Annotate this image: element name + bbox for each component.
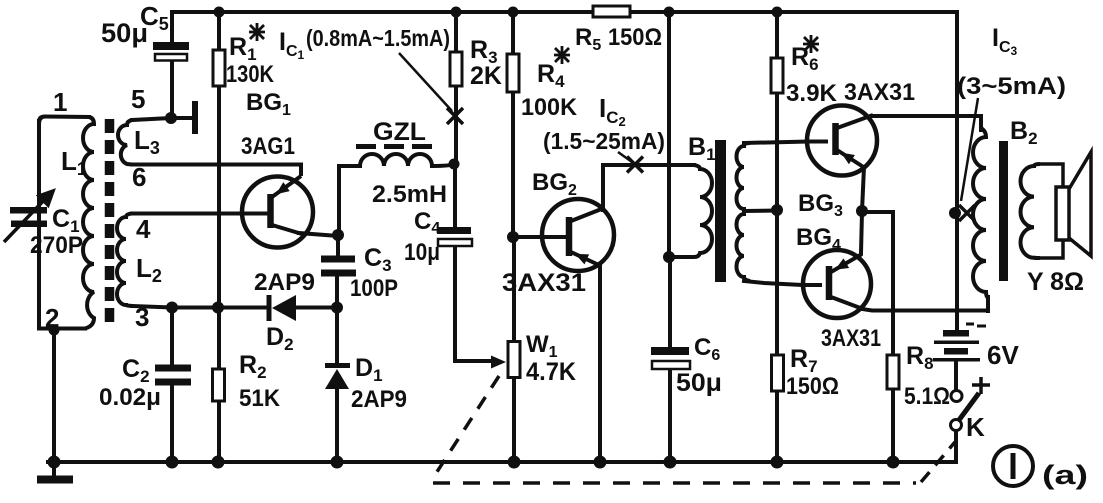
wire R1 branch vertical [217,12,221,369]
wire C5 top stub [170,12,174,43]
gang link dashed line from W1 wiper [433,376,499,478]
wire switch bottom to rail [954,430,958,462]
measuring point X marks [447,108,975,221]
wire terminal 6 to BG1 emitter corner [132,165,301,175]
node 3 junction at C2 [166,302,178,314]
X mark IC3 point [959,205,975,221]
wire top supply rail left of R5 [172,10,593,14]
wire C6 to rail [668,371,672,462]
gang link dashed line to switch K [921,442,955,482]
potentiometer W1 4.7K body [508,342,520,378]
resistor R2 51K body [213,369,225,401]
svg-text:2AP9: 2AP9 [351,386,407,413]
plus sign near switch [972,377,990,394]
wire B1 secondary bottom to BG4 base [744,281,803,285]
junction ground rail / W1 [508,456,521,469]
wire B1 center tap lead [744,209,777,214]
svg-text:(0.8mA~1.5mA): (0.8mA~1.5mA) [306,25,450,51]
svg-text:GZL: GZL [373,118,426,146]
transformer B1 [669,140,750,282]
svg-text:10μ: 10μ [404,239,440,266]
capacitor C4 10u (electrolytic) [437,227,471,234]
wire W1 string: base node down through pot to rail [512,237,516,462]
svg-text:2: 2 [45,303,59,333]
wire C4 top stub [453,164,457,228]
annotation pointer lines [399,53,978,201]
switch K [951,391,980,431]
svg-text:(a): (a) [1042,460,1088,490]
coil L2 (terminals 4,3) [117,214,132,307]
coil L3 (terminals 5,6) [118,120,132,165]
coil L1 [83,117,94,329]
junction R6 top at supply rail [772,7,783,18]
GZL dashed marker line [356,144,434,149]
svg-text:3AG1: 3AG1 [241,133,295,160]
wire BG3 collector to B2 primary top [872,116,981,130]
wire terminal 4 to BG1 base [132,212,266,216]
svg-text:51K: 51K [239,385,281,412]
svg-text:2AP9: 2AP9 [254,269,315,296]
X mark IC2 point [627,157,643,173]
pointer line from IC1 note to measuring point [399,53,452,111]
svg-text:4.7K: 4.7K [526,358,576,386]
wire C2 bottom stub [170,386,174,462]
wire tank left vertical [37,121,41,326]
svg-text:3: 3 [135,302,149,332]
select-on-test mark for R1 [249,23,265,41]
gang link dashed line along bottom [433,481,916,485]
wire bottom ground rail [48,460,956,464]
junction R1 top at supply rail [214,7,225,18]
svg-text:3AX31: 3AX31 [821,325,881,352]
wire C2 top stub [170,308,174,366]
svg-text:5: 5 [131,84,145,114]
node BG2 base / R4 / W1 junction [507,231,519,243]
svg-text:3AX31: 3AX31 [844,79,915,106]
svg-text:5.1Ω: 5.1Ω [904,383,950,410]
wire common emitter node right and down to R8 [862,212,893,355]
wire collector node to C3 [336,235,340,256]
wire terminal 3 row to D2 [132,306,266,308]
junction R3 top at supply rail [451,7,462,18]
svg-text:(1.5~25mA): (1.5~25mA) [543,128,665,154]
wire B1 secondary top to BG3 base [744,142,807,144]
svg-text:6: 6 [132,162,146,192]
svg-text:3.9K: 3.9K [786,80,838,107]
svg-text:50μ: 50μ [676,369,722,397]
wire tank bottom [39,327,85,331]
capacitor C2 0.02u [155,365,191,372]
svg-text:K: K [966,412,985,442]
capacitor C3 100P [321,256,355,263]
svg-text:3AX31: 3AX31 [502,269,586,297]
node GZL / R3 / C4 junction [449,159,460,170]
wire BG4 collector right to B2 primary bottom [862,297,988,311]
wire BG3 emitter down to common node [862,167,864,211]
node 5 terminal bar [192,104,198,131]
svg-text:50μ: 50μ [101,18,148,48]
potentiometer W1 wiper arrow [491,356,506,369]
junction ground rail / R8 [887,456,900,469]
ground symbol [37,462,73,480]
svg-text:2.5mH: 2.5mH [372,181,447,208]
svg-text:6V: 6V [987,340,1019,370]
wire right vertical from top rail to battery [955,12,959,332]
resistor R4 100K body [507,54,519,92]
wire center tap to R7 to rail [775,210,779,462]
wire node 5 horizontal with terminal stub [132,118,195,120]
battery minus marks [966,323,974,326]
wire tank top [39,117,89,123]
node B1 primary bottom / C6 junction [663,251,675,263]
junction ground rail / C6 [664,456,677,469]
wire BG2 base [513,235,565,239]
svg-text:2K: 2K [470,62,502,90]
transformer B2 [973,128,1091,298]
svg-text:Y 8Ω: Y 8Ω [1027,268,1084,296]
transistor BG4 3AX31 [803,250,871,318]
junction B1 feed at supply rail [664,7,675,18]
wire C5 bottom to node 5 [170,60,174,118]
wire D2 to C3 junction [296,306,337,310]
node 3 junction at R1/R2 divider [212,302,224,314]
wire BG1 collector to node [299,233,338,236]
select-on-test mark for R4 [554,46,570,64]
node BG1 collector / GZL / C3 junction [332,229,344,241]
svg-text:100K: 100K [521,94,578,121]
wire GZL left leg down to BG1 collector node [339,166,360,235]
junction R4 top at supply rail [508,7,519,18]
wire node 2 to rail [52,330,56,462]
wire battery bottom to switch [954,360,958,390]
resistor R8 5.1ohm body [887,355,899,389]
wire B1 feed vertical from top rail [667,12,671,257]
capacitor C5 50u (electrolytic) [153,42,189,50]
wire BG4 emitter up to common node [861,212,862,253]
svg-text:0.02μ: 0.02μ [99,384,161,411]
wire R4 branch vertical [511,12,515,237]
inductor GZL 2.5mH coil [360,154,432,166]
pointer line from IC2 note to measuring point [618,152,632,162]
svg-text:150Ω: 150Ω [786,373,839,400]
mechanical link dashed lines (W1 to K) [433,376,955,483]
wire B1 bottom node to C6 [668,257,672,347]
junction ground rail / D1 [331,456,344,469]
resistor R7 150ohm body [772,355,784,391]
transistor BG3 3AX31 [807,106,877,176]
junction ground rail / R2 [212,456,225,469]
diode D2 2AP9 (horizontal, cathode left) [267,295,272,321]
node 2 junction at tank bottom [49,325,60,336]
wire R3 branch: rail to body, body to GZL node, X crossing point [454,12,458,164]
node BG3-BG4 common emitter / R8 junction [856,205,868,217]
node C3 / D2 / D1 junction [331,302,343,314]
pointer line from IC3 note to measuring point [961,98,978,201]
transistor BG1 3AG1 [242,176,313,248]
wire C3 to D2/D1 node [335,277,339,363]
resistor R3 2K body [450,52,462,86]
junction ground rail / BG2 emitter [594,456,607,469]
select-on-test mark for R6 [803,35,819,53]
battery 6V [933,323,986,362]
junction ground rail / C2 [166,456,179,469]
wire BG2 emitter to rail [598,264,602,462]
resistor R6 3.9K body [771,58,783,93]
variable capacitor C1 arrow [4,191,53,242]
svg-text:130K: 130K [226,61,275,88]
junction ground rail / tank [48,456,61,469]
svg-text:100P: 100P [350,275,398,302]
wire BG2 collector up and right to B1 primary [603,165,694,210]
diode D1 2AP9 (vertical, cathode up) [325,363,350,368]
wire R8 to rail [891,389,895,462]
variable capacitor C1 270P plates [10,207,47,214]
resistor R1 130K body [213,50,225,86]
speaker Y 8ohm [1040,164,1063,258]
node B1 center tap / R6 / R7 junction [771,204,783,216]
X mark IC1 point [447,108,463,124]
wire C4 bottom down and to W1 wiper [455,247,493,361]
node IC3 measuring point on battery feed [949,207,961,219]
transistor BG2 3AX31 [542,199,614,271]
svg-text:270P: 270P [30,232,83,259]
wire R6 branch: rail to body, body to center tap [775,12,779,210]
svg-text:1: 1 [53,87,67,117]
node 5 junction (C5 / L3) [165,112,177,124]
resistor R5 150ohm body (horizontal, in rail) [593,6,630,17]
wire D1 to rail [335,388,339,462]
wire R2 bottom to rail [217,401,221,462]
svg-text:R5150Ω: R5150Ω [575,24,662,54]
wire top supply rail right of R5 [630,10,957,14]
select-on-test asterisk marks [249,23,819,64]
wire GZL right leg [432,164,454,166]
capacitor C6 50u (electrolytic) [651,347,689,355]
figure label circled 1 [993,446,1033,486]
svg-text:4: 4 [136,214,151,244]
junction ground rail / R7 [771,456,784,469]
ferrite core dashed line [105,119,115,322]
svg-text:(3~5mA): (3~5mA) [957,73,1066,100]
